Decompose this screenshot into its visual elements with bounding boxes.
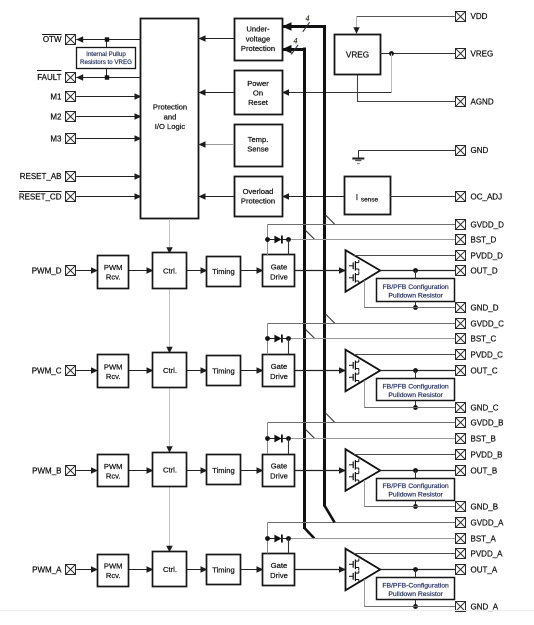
svg-text:voltage: voltage <box>246 34 271 43</box>
wire PVDD_C from power stage <box>354 354 456 356</box>
svg-text:Protection: Protection <box>241 44 275 53</box>
wire arrow from I/O logic into Ctrl channel B <box>166 446 172 453</box>
wire M1 to Protection logic <box>76 93 141 100</box>
high-side MOSFET symbol channel C <box>349 360 359 372</box>
pin RESET_AB <box>20 172 76 182</box>
pin OUT_B <box>456 466 498 476</box>
bus tap slash BST_C <box>305 329 314 338</box>
ground symbol <box>352 150 364 163</box>
wire Ctrl to Timing channel C <box>187 367 208 374</box>
svg-text:Protection: Protection <box>153 103 187 112</box>
block Gate Drive channel A <box>263 554 295 586</box>
block FB/PFB Configuration Pulldown Resistor channel C <box>377 379 455 401</box>
svg-text:GND_B: GND_B <box>471 502 499 511</box>
junction dot diode anode channel D <box>265 237 270 242</box>
pin BST_B <box>456 434 496 444</box>
bus GVDD 4-wire to Under-voltage Protection (thick) <box>282 22 326 506</box>
block VREG regulator <box>335 35 381 75</box>
junction dot OUT_D to pulldown network <box>413 268 418 273</box>
junction dot diode cathode / BST node channel B <box>286 436 291 441</box>
pin GVDD_B <box>456 418 504 428</box>
svg-text:GVDD_D: GVDD_D <box>471 220 505 229</box>
wire RESET_CD to Protection logic <box>76 193 141 200</box>
wire pulldown box to GND_A <box>415 600 417 607</box>
junction dot diode cathode / BST node channel D <box>286 237 291 242</box>
bootstrap diode DA <box>268 535 289 543</box>
svg-text:Ctrl.: Ctrl. <box>163 267 177 276</box>
junction dot pulldown to GND_B <box>413 504 418 509</box>
svg-text:Temp.: Temp. <box>248 135 269 144</box>
junction dot pulldown to GND_D <box>413 305 418 310</box>
high-side MOSFET symbol channel B <box>349 459 359 471</box>
svg-text:GND: GND <box>471 146 489 155</box>
svg-text:and: and <box>164 112 177 121</box>
wire Gate Drive to power stage channel B <box>295 467 346 474</box>
pin OUT_D <box>456 266 498 276</box>
pin BST_D <box>456 235 497 245</box>
wire BST node down to Gate Drive channel B <box>288 439 290 455</box>
svg-text:On: On <box>253 89 263 98</box>
svg-text:RESET_AB: RESET_AB <box>20 172 62 181</box>
bootstrap diode DB <box>268 435 289 443</box>
pin AGND <box>456 97 494 107</box>
bus BST terminal bend into BST_A line <box>305 528 315 539</box>
power stage output triangle channel D <box>346 250 381 292</box>
junction dot diode cathode / BST node channel C <box>286 336 291 341</box>
wire PWM_A pin to PWM Rcv <box>76 566 98 573</box>
junction dot diode cathode / BST node channel A <box>286 536 291 541</box>
low-side MOSFET symbol channel C <box>349 372 359 384</box>
svg-text:M3: M3 <box>50 135 62 144</box>
wire OUT_D node to pulldown box <box>415 271 417 280</box>
wire BST_A <box>289 538 456 540</box>
wire PVDD_A from power stage <box>354 553 456 555</box>
block Gate Drive channel D <box>263 255 295 287</box>
svg-text:sense: sense <box>361 196 379 203</box>
pin OUT_C <box>456 366 498 376</box>
svg-text:GVDD_C: GVDD_C <box>471 319 505 328</box>
svg-text:Ctrl.: Ctrl. <box>163 366 177 375</box>
high-side MOSFET symbol channel A <box>349 559 359 571</box>
svg-text:I: I <box>356 192 358 202</box>
wire pulldown box to GND_C <box>415 401 417 408</box>
wire GVDD_A to gate drive and bootstrap diode <box>268 523 456 554</box>
wire VREG node down to Power On Reset <box>282 54 392 96</box>
wire Gate Drive to power stage channel A <box>295 566 346 573</box>
wire PWM Rcv to Ctrl channel A <box>129 566 154 573</box>
pin GND <box>456 146 489 156</box>
pin PVDD_C <box>456 350 504 360</box>
wire PWM_B pin to PWM Rcv <box>76 467 98 474</box>
junction dot diode anode channel A <box>265 536 270 541</box>
faint page rule at bottom <box>0 610 534 612</box>
block PWM Rcv channel A <box>98 555 129 587</box>
wire Timing to Gate Drive channel C <box>240 367 264 374</box>
svg-text:Reset: Reset <box>248 98 269 107</box>
wire Gate Drive to power stage channel D <box>295 267 346 274</box>
pin GVDD_D <box>456 220 505 230</box>
svg-text:GVDD_A: GVDD_A <box>471 518 505 527</box>
pin GVDD_A <box>456 518 505 528</box>
wire GND_B to power stage <box>364 480 456 507</box>
pin PVDD_D <box>456 251 504 261</box>
bus tap slash BST_B <box>305 429 314 438</box>
junction dot OUT_A to pulldown network <box>413 567 418 572</box>
svg-text:Rcv.: Rcv. <box>106 273 121 282</box>
wire arrow from I/O logic into Ctrl channel C <box>166 347 172 354</box>
pin GVDD_C <box>456 319 505 329</box>
wire OC_ADJ to Isense <box>390 196 456 198</box>
wire OUT_B from power stage output <box>380 470 456 472</box>
pin FAULT (active low output) <box>37 71 76 83</box>
svg-text:VREG: VREG <box>346 51 369 60</box>
wire M3 to Protection logic <box>76 135 141 142</box>
svg-text:FB/PFB Configuration: FB/PFB Configuration <box>383 483 449 490</box>
block Timing channel C <box>207 356 241 386</box>
junction dot OUT_B to pulldown network <box>413 468 418 473</box>
svg-text:OUT_D: OUT_D <box>471 266 498 275</box>
block Power On Reset <box>235 71 283 115</box>
svg-text:Overload: Overload <box>243 187 274 196</box>
wire PWM Rcv to Ctrl channel C <box>129 367 154 374</box>
wire pulldown box to GND_D <box>415 301 417 307</box>
wire OUT_A node to pulldown box <box>415 570 417 578</box>
power stage output triangle channel A <box>346 549 381 591</box>
bootstrap diode DD <box>268 236 289 244</box>
pin PVDD_B <box>456 450 503 460</box>
wire Ctrl to Timing channel D <box>187 267 208 274</box>
wire PVDD_D from power stage <box>354 255 456 257</box>
bus width slash and label 4 (BST bus) <box>291 36 298 54</box>
svg-text:PWM: PWM <box>104 462 123 471</box>
svg-text:Sense: Sense <box>247 145 269 154</box>
pin RESET_CD <box>19 192 76 202</box>
junction square dot on OTW wire to pullup box <box>105 37 109 47</box>
wire M2 to Protection logic <box>76 113 141 120</box>
bus tap slash GVDD_C <box>325 314 334 323</box>
block FB/PFB Configuration Pulldown Resistor channel D <box>377 279 455 302</box>
svg-text:Pulldown Resistor: Pulldown Resistor <box>388 293 443 300</box>
svg-text:Rcv.: Rcv. <box>106 571 121 580</box>
block Overload Protection <box>235 177 283 217</box>
pin BST_C <box>456 334 497 344</box>
svg-text:Drive: Drive <box>270 372 288 381</box>
wire OUT_C from power stage output <box>380 370 456 372</box>
junction square dot on FAULT wire to pullup box <box>105 68 109 80</box>
wire GND pin to ground symbol <box>358 150 456 152</box>
svg-text:PVDD_B: PVDD_B <box>471 450 503 459</box>
svg-text:PWM_B: PWM_B <box>32 466 61 475</box>
wire GVDD_D to gate drive and bootstrap diode <box>268 225 456 256</box>
pin VREG <box>456 49 494 59</box>
pin GND_B <box>456 502 499 512</box>
low-side MOSFET symbol channel D <box>349 272 359 284</box>
pin PWM_B <box>32 466 75 476</box>
block Gate Drive channel C <box>263 355 295 387</box>
svg-text:PWM: PWM <box>104 561 123 570</box>
svg-text:Ctrl.: Ctrl. <box>163 565 177 574</box>
block Internal Pullup Resistors to VREG <box>77 48 136 69</box>
svg-text:Under-: Under- <box>246 25 270 34</box>
svg-text:Internal Pullup: Internal Pullup <box>86 51 126 58</box>
block FB/PFB Configuration Pulldown Resistor channel A <box>377 578 455 600</box>
wire GND_D to power stage <box>364 280 456 307</box>
svg-text:PVDD_D: PVDD_D <box>471 251 504 260</box>
svg-text:Timing: Timing <box>212 267 235 276</box>
wire Ctrl to Timing channel A <box>187 566 208 573</box>
low-side MOSFET symbol channel B <box>349 471 359 483</box>
pin GND_A <box>456 602 499 612</box>
high-side MOSFET symbol channel D <box>349 260 359 272</box>
bus tap slash GVDD_D <box>325 215 334 224</box>
wire Timing to Gate Drive channel A <box>240 566 264 573</box>
block Timing channel A <box>207 555 241 585</box>
wire OTW from Protection logic <box>76 36 141 43</box>
wire arrow from I/O logic into Ctrl channel A <box>166 546 172 553</box>
pin GND_C <box>456 403 499 413</box>
svg-text:VREG: VREG <box>471 49 494 58</box>
svg-text:Pulldown Resistor: Pulldown Resistor <box>388 492 443 499</box>
wire Gate Drive to power stage channel C <box>295 367 346 374</box>
svg-text:Timing: Timing <box>212 366 235 375</box>
svg-text:Protection: Protection <box>241 197 275 206</box>
block PWM Rcv channel C <box>98 355 129 388</box>
bus GVDD terminal bend into GVDD_A line <box>325 506 335 523</box>
svg-text:Drive: Drive <box>270 571 288 580</box>
wire BST node down to Gate Drive channel C <box>288 339 290 355</box>
bus tap slash GVDD_B <box>325 413 334 422</box>
svg-text:GND_A: GND_A <box>471 602 499 611</box>
svg-text:PWM_A: PWM_A <box>32 565 62 574</box>
svg-text:PWM: PWM <box>104 362 123 371</box>
pin PWM_A <box>32 565 75 575</box>
svg-text:GND_D: GND_D <box>471 303 499 312</box>
wire PVDD_B from power stage <box>354 454 456 456</box>
svg-text:GND_C: GND_C <box>471 403 499 412</box>
wire Overload Protection output to Protection logic <box>199 193 235 200</box>
wire Isense to Overload Protection <box>282 193 344 200</box>
junction dot OUT_C to pulldown network <box>413 368 418 373</box>
wire VDD to VREG input <box>353 16 456 34</box>
block FB/PFB Configuration Pulldown Resistor channel B <box>377 479 455 501</box>
block Isense current sense <box>345 177 391 215</box>
svg-text:Timing: Timing <box>212 466 235 475</box>
svg-text:Ctrl.: Ctrl. <box>163 466 177 475</box>
wire BST_C <box>289 338 456 340</box>
wire pulldown box to GND_B <box>415 500 417 506</box>
wire AGND from VREG bottom <box>357 75 456 102</box>
svg-text:GVDD_B: GVDD_B <box>471 418 504 427</box>
power stage output triangle channel C <box>346 350 381 392</box>
junction dot pulldown to GND_C <box>413 405 418 410</box>
wire BST node down to Gate Drive channel A <box>288 539 290 554</box>
svg-text:FB/PFB Configuration: FB/PFB Configuration <box>383 284 449 291</box>
svg-text:Drive: Drive <box>270 272 288 281</box>
wire Under-voltage Protection output to Protection logic <box>199 35 235 42</box>
wire GND_A to power stage <box>364 579 456 606</box>
wire Timing to Gate Drive channel D <box>240 267 264 274</box>
pin M2 <box>50 112 75 122</box>
svg-text:FB/PFB-Configuration: FB/PFB-Configuration <box>382 582 449 589</box>
pin OUT_A <box>456 565 498 575</box>
svg-text:I/O Logic: I/O Logic <box>155 122 186 131</box>
wire GVDD_C to gate drive and bootstrap diode <box>268 324 456 355</box>
svg-text:FAULT: FAULT <box>37 73 61 82</box>
svg-text:Gate: Gate <box>271 362 287 371</box>
block Ctrl channel B <box>153 453 187 487</box>
svg-text:BST_C: BST_C <box>471 334 497 343</box>
block Ctrl channel C <box>153 353 187 388</box>
wire FAULT from Protection logic <box>76 74 141 81</box>
svg-text:VDD: VDD <box>471 12 488 21</box>
svg-text:OUT_C: OUT_C <box>471 366 498 375</box>
bus BST 4-wire to Under-voltage Protection (thick) <box>282 45 306 529</box>
pin OTW (active low output) <box>42 35 76 45</box>
wire Protection logic down to channel Ctrl blocks <box>169 219 171 552</box>
svg-text:Resistors to VREG: Resistors to VREG <box>80 59 132 66</box>
svg-text:OC_ADJ: OC_ADJ <box>471 193 503 202</box>
bus width slash and label 4 (GVDD bus) <box>303 14 310 32</box>
low-side MOSFET symbol channel A <box>349 571 359 583</box>
svg-text:Timing: Timing <box>212 565 235 574</box>
svg-text:PWM_C: PWM_C <box>32 366 62 375</box>
junction dot pulldown to GND_A <box>413 604 418 609</box>
svg-text:Gate: Gate <box>271 461 287 470</box>
pin M3 <box>50 134 75 144</box>
wire PWM Rcv to Ctrl channel B <box>129 467 154 474</box>
wire OUT_A from power stage output <box>380 569 456 571</box>
svg-text:M2: M2 <box>50 113 62 122</box>
wire arrow from I/O logic into Ctrl channel D <box>166 247 172 254</box>
svg-text:AGND: AGND <box>471 97 494 106</box>
block Temp. Sense <box>235 125 283 167</box>
pin OC_ADJ <box>456 192 503 202</box>
wire OUT_D from power stage output <box>380 270 456 272</box>
block PWM Rcv channel B <box>98 455 129 487</box>
wire OUT_C node to pulldown box <box>415 371 417 379</box>
svg-text:OTW: OTW <box>43 35 62 44</box>
svg-text:Rcv.: Rcv. <box>106 372 121 381</box>
pin BST_A <box>456 534 497 544</box>
svg-text:BST_D: BST_D <box>471 235 497 244</box>
junction dot diode anode channel C <box>265 336 270 341</box>
wire RESET_AB to Protection logic <box>76 173 141 180</box>
svg-text:Gate: Gate <box>271 262 287 271</box>
svg-text:OUT_B: OUT_B <box>471 466 498 475</box>
svg-text:Pulldown Resistor: Pulldown Resistor <box>388 591 443 598</box>
wire Power On Reset output to Protection logic <box>199 89 235 96</box>
junction dot diode anode channel B <box>265 436 270 441</box>
svg-text:4: 4 <box>294 36 298 45</box>
block Timing channel D <box>207 257 241 287</box>
wire GND_C to power stage <box>364 380 456 407</box>
pin PWM_D <box>32 266 76 276</box>
pin PVDD_A <box>456 549 504 559</box>
svg-text:FB/PFB Configuration: FB/PFB Configuration <box>383 383 449 390</box>
svg-text:PVDD_C: PVDD_C <box>471 350 504 359</box>
svg-text:Gate: Gate <box>271 561 287 570</box>
bus tap slash BST_D <box>305 230 314 239</box>
block U1 Protection and I/O Logic <box>141 19 199 219</box>
wire BST_D <box>289 239 456 241</box>
bootstrap diode DC <box>268 335 289 343</box>
junction dot VREG output node <box>389 51 394 56</box>
svg-text:Pulldown Resistor: Pulldown Resistor <box>388 392 443 399</box>
pin VDD <box>456 12 488 22</box>
wire BST_B <box>289 438 456 440</box>
pin PWM_C <box>32 366 76 376</box>
svg-text:BST_A: BST_A <box>471 534 497 543</box>
svg-text:OUT_A: OUT_A <box>471 565 498 574</box>
wire PWM_D pin to PWM Rcv <box>76 267 98 274</box>
wire PWM_C pin to PWM Rcv <box>76 367 98 374</box>
wire GVDD_B to gate drive and bootstrap diode <box>268 423 456 455</box>
wire OUT_B node to pulldown box <box>415 471 417 479</box>
wire Ctrl to Timing channel B <box>187 467 208 474</box>
svg-text:PVDD_A: PVDD_A <box>471 549 504 558</box>
wire Timing to Gate Drive channel B <box>240 467 264 474</box>
wire VREG output to pin <box>380 53 456 55</box>
svg-text:BST_B: BST_B <box>471 434 496 443</box>
svg-text:4: 4 <box>306 14 310 23</box>
wire PWM Rcv to Ctrl channel D <box>129 267 154 274</box>
block Ctrl channel D <box>153 253 187 289</box>
wire BST node down to Gate Drive channel D <box>288 240 290 256</box>
block Ctrl channel A <box>153 552 187 587</box>
pin M1 <box>50 92 75 102</box>
svg-text:Power: Power <box>247 79 269 88</box>
svg-text:PWM_D: PWM_D <box>32 266 62 275</box>
power stage output triangle channel B <box>346 449 381 491</box>
block Gate Drive channel B <box>263 455 295 487</box>
svg-text:RESET_CD: RESET_CD <box>19 193 62 202</box>
svg-text:M1: M1 <box>50 93 62 102</box>
block PWM Rcv channel D <box>98 256 129 289</box>
svg-text:PWM: PWM <box>104 263 123 272</box>
block Timing channel B <box>207 455 241 485</box>
block Under-voltage Protection <box>235 19 283 61</box>
pin GND_D <box>456 303 499 313</box>
svg-text:Drive: Drive <box>270 471 288 480</box>
svg-text:Rcv.: Rcv. <box>106 472 121 481</box>
wire Temp. Sense output to Protection logic <box>199 141 235 148</box>
